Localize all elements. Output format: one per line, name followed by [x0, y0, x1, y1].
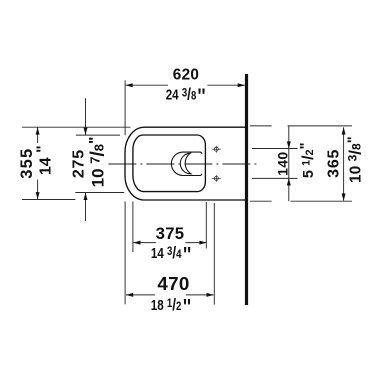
- extension line x=214 lower: [213, 203, 215, 305]
- tick y=192.5 (275 bottom): [75, 192, 124, 194]
- dimension 620 line: [126, 84, 169, 86]
- mounting hole cross top: [212, 146, 221, 153]
- svg-text:365: 365: [325, 149, 342, 178]
- mounting hole cross bottom: [212, 175, 221, 182]
- extension line rim-right lower (x=206): [205, 202, 207, 249]
- right ticks y=126: [250, 125, 272, 127]
- right tick y=178.4 (hole bottom): [252, 177, 298, 179]
- outlet horn (stadium shape): [171, 152, 202, 175]
- dimension 365 line: [343, 127, 345, 200]
- centerline: [108, 163, 258, 165]
- svg-text:275: 275: [70, 149, 87, 178]
- tick y=199.5 (left, bottom edge extension): [22, 199, 75, 201]
- extension line rim-left lower (x=133): [132, 202, 134, 253]
- svg-text:620: 620: [173, 67, 199, 84]
- svg-text:470: 470: [157, 273, 189, 294]
- dimension 140 line: [288, 126, 290, 201]
- toilet inner rim: [133, 135, 206, 192]
- dimension 275 arrows (outside): [85, 98, 87, 135]
- tick y=135 (275 top): [76, 134, 120, 136]
- outlet crescent: [180, 153, 191, 174]
- dimension 470 line: [126, 294, 155, 296]
- toilet outer outline: [125, 127, 246, 200]
- svg-text:140: 140: [275, 152, 291, 176]
- wall: [245, 74, 248, 305]
- dimension 620 extension line (front, upper): [124, 80, 126, 135]
- dimension 355 line: [37, 127, 39, 143]
- svg-text:375: 375: [156, 224, 185, 243]
- extension line front lower (x=125): [124, 202, 126, 305]
- right tick y=148.5 (hole top): [252, 148, 298, 150]
- dimension 375 line: [133, 242, 156, 244]
- svg-text:355: 355: [18, 148, 36, 179]
- tick y=127 (left of toilet, top edge extension): [22, 126, 131, 128]
- right ticks y=201: [250, 200, 272, 202]
